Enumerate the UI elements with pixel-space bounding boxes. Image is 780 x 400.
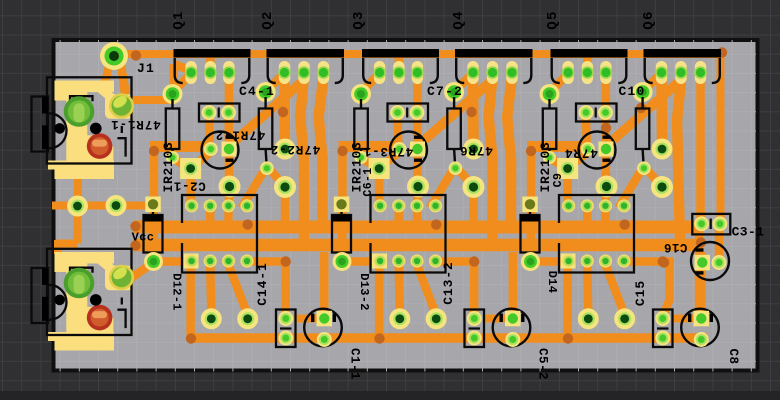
capacitor ch1 round (202, 132, 239, 169)
label 47R2-2 (270, 142, 320, 156)
label 47R6 (459, 143, 493, 157)
label Q5 (545, 10, 561, 29)
wires channel 1 (150, 50, 324, 336)
svg-text:D14: D14 (545, 271, 559, 294)
resistor ch1a (163, 84, 183, 164)
wire bus4 (bottom rail) (191, 333, 707, 343)
capacitor ch2 bottom small (465, 310, 485, 348)
label C10 (618, 84, 645, 99)
via bus2 left (130, 240, 140, 250)
label C2-1 (173, 179, 205, 193)
via ch1 mid-left (149, 146, 159, 156)
label C6-1 (362, 167, 375, 196)
capacitor ch1 bottom electrolytic (304, 309, 342, 347)
resistor ch1b (256, 82, 276, 175)
svg-text:C2-1: C2-1 (173, 179, 205, 193)
label Vcc (132, 231, 155, 245)
via ch2 bottom (374, 333, 384, 343)
svg-text:Q6: Q6 (641, 10, 657, 29)
svg-text:Q5: Q5 (545, 10, 561, 29)
label C8 (726, 348, 740, 364)
svg-text:Vcc: Vcc (132, 231, 155, 245)
label Q4 (451, 10, 467, 29)
via ch2 bus1 (431, 219, 441, 229)
wire bus2 (mid lower rail) (134, 239, 697, 252)
wire C16 left feed (695, 228, 704, 255)
capacitor ch2 bottom electrolytic (493, 309, 531, 347)
via ch3 comp (601, 123, 611, 133)
label C14-1 (255, 262, 270, 306)
wire block3 C3-1 feed (696, 76, 705, 220)
label 47R3-1 (363, 144, 413, 158)
bottom window strip (0, 391, 780, 400)
op-amp U2 IR2103 (371, 195, 446, 273)
svg-text:C9: C9 (552, 173, 565, 188)
diode D12 (144, 197, 164, 272)
wire jack1 vertical feed (174, 64, 190, 92)
svg-text:D13-2: D13-2 (357, 273, 371, 311)
svg-text:C13-2: C13-2 (441, 261, 456, 305)
label C16 (664, 240, 688, 254)
label IR2103 ch1 (161, 141, 176, 192)
via ch3 bottom (563, 333, 573, 343)
svg-text:47R2-2: 47R2-2 (270, 142, 320, 156)
wires channel 3 (527, 50, 701, 336)
label D13-2 (357, 273, 371, 311)
label D12-1 (170, 273, 184, 311)
capacitor ch1 top (199, 104, 240, 122)
wire jack2 to diode pad (131, 263, 154, 279)
svg-text:47R3-1: 47R3-1 (363, 144, 413, 158)
label C5-2 (536, 348, 550, 380)
connector jack J3 (bottom) (32, 249, 135, 351)
label J1 (137, 61, 155, 76)
pcb board (54, 40, 758, 371)
label C1-1 (348, 348, 362, 380)
pad ch3 P3 upper (652, 139, 673, 160)
via C16 top (696, 237, 706, 247)
label Q1 (171, 10, 187, 29)
wire jack1 to R1 pad (130, 88, 174, 100)
capacitor ch3 bottom electrolytic (681, 309, 719, 347)
svg-text:Q3: Q3 (351, 10, 367, 29)
diode D14 (521, 197, 541, 272)
via ch3 upper (636, 103, 646, 113)
pad ch3 P4 lower (651, 176, 673, 198)
pad J1 header (100, 42, 128, 70)
transistor Q4 (455, 49, 533, 84)
svg-text:C16: C16 (664, 240, 688, 254)
pad ch1 B1 (201, 308, 222, 329)
svg-text:C15: C15 (633, 280, 648, 306)
resistor ch3a (540, 84, 560, 164)
svg-text:D12-1: D12-1 (170, 273, 184, 311)
label C9 (552, 173, 565, 188)
via top-left (131, 50, 141, 60)
svg-text:C14-1: C14-1 (255, 262, 270, 306)
pad ch2 B2 (426, 308, 447, 329)
label C7-2 (427, 84, 463, 99)
op-amp U1 IR2103 (182, 195, 257, 273)
svg-text:Q2: Q2 (260, 10, 276, 29)
svg-text:Q1: Q1 (171, 10, 187, 29)
pad ch3 P2 (596, 176, 618, 198)
label Q3 (351, 10, 367, 29)
svg-text:47R6: 47R6 (459, 143, 493, 157)
via bus1 left (130, 221, 140, 231)
via ch2 mid-left (337, 146, 347, 156)
resistor ch2b (444, 82, 464, 175)
label Q2 (260, 10, 276, 29)
pad ch1 B2 (237, 308, 258, 329)
wire jack1 bottom to Vcc pad (52, 174, 150, 206)
wire top rail (114, 50, 722, 58)
via ch1 upper (278, 107, 288, 117)
label IR2103 ch2 (350, 141, 365, 192)
pad ch2 P2 (407, 176, 429, 198)
wires channel 2 (339, 50, 513, 336)
svg-text:C4-1: C4-1 (239, 84, 275, 99)
pad ch2 P3 upper (463, 139, 484, 160)
via top-right corner (717, 47, 727, 57)
capacitor C3-1 (692, 214, 730, 235)
svg-text:47R4: 47R4 (564, 146, 598, 160)
via bus2 right (659, 257, 669, 267)
svg-text:Q4: Q4 (451, 10, 467, 29)
svg-text:J1: J1 (137, 61, 155, 76)
board grid (56, 40, 756, 372)
via ch1 bottom (186, 333, 196, 343)
svg-text:C7-2: C7-2 (427, 84, 463, 99)
label D14 (545, 271, 559, 294)
label Q6 (641, 10, 657, 29)
via ch3 mid-left (526, 146, 536, 156)
resistor ch2a (351, 84, 371, 164)
label C4-1 (239, 84, 275, 99)
pad ch3 P1 (557, 158, 578, 179)
diode D13 (332, 197, 352, 272)
capacitor C16 (691, 242, 729, 280)
svg-text:C10: C10 (618, 84, 645, 99)
capacitor ch3 top (576, 104, 617, 122)
wire J1 pad to jack1 (98, 58, 130, 96)
pad ch2 P4 lower (463, 176, 485, 198)
pad ch1 P3 upper (275, 139, 296, 160)
wire top-right corner drop (717, 54, 725, 220)
svg-text:C5-2: C5-2 (536, 348, 550, 380)
pad ch1 P2 (219, 176, 241, 198)
via ch2 pin5 (469, 256, 479, 266)
pad jack B (106, 195, 127, 216)
capacitor ch3 round (579, 132, 616, 169)
wire C16 right feed (715, 228, 724, 257)
pad ch2 P1 (369, 158, 390, 179)
svg-text:C8: C8 (726, 348, 740, 364)
pad ch1 P4 lower (274, 176, 296, 198)
capacitor ch2 round (390, 132, 427, 169)
svg-text:IR2103: IR2103 (538, 141, 553, 192)
via ch1 bus1 (243, 219, 253, 229)
svg-text:C3-1: C3-1 (732, 225, 765, 240)
capacitor ch1 bottom small (276, 310, 296, 348)
wire jack pad A down (56, 210, 78, 254)
pad ch2 B1 (389, 308, 410, 329)
pad jack A (67, 196, 88, 217)
svg-text:47R1-2: 47R1-2 (215, 128, 265, 142)
capacitor ch2 top (388, 104, 429, 122)
transistor Q2 (267, 49, 345, 84)
resistor ch3b (633, 82, 653, 175)
connector jack J2 (top) (32, 77, 135, 179)
transistor Q6 (644, 49, 722, 84)
wire bus1 (mid upper rail) (134, 221, 702, 234)
via ch3 bus1 (620, 219, 630, 229)
label C15 (633, 280, 648, 306)
transistor Q3 (362, 49, 439, 84)
transistor Q5 (551, 49, 628, 84)
via ch3 pin5 (658, 256, 668, 266)
wire C16 to C8 cap (695, 270, 704, 312)
label 47R4 (564, 146, 598, 160)
label 47R1-2 (215, 128, 265, 142)
capacitor ch3 bottom small (653, 310, 673, 348)
op-amp U3 IR2103 (559, 195, 634, 273)
svg-text:C6-1: C6-1 (362, 167, 375, 196)
label C13-2 (441, 261, 456, 305)
pad ch1 P1 (180, 158, 201, 179)
label C3-1 (732, 225, 765, 240)
label 47R1-1 (110, 117, 160, 131)
svg-text:C1-1: C1-1 (348, 348, 362, 380)
label IR2103 ch3 (538, 141, 553, 192)
pad ch3 B2 (614, 308, 635, 329)
svg-text:47R1-1: 47R1-1 (110, 117, 160, 131)
pad ch3 B1 (578, 308, 599, 329)
transistor Q1 (174, 49, 251, 84)
via ch1 pin5 (281, 256, 291, 266)
via ch2 upper (466, 107, 476, 117)
